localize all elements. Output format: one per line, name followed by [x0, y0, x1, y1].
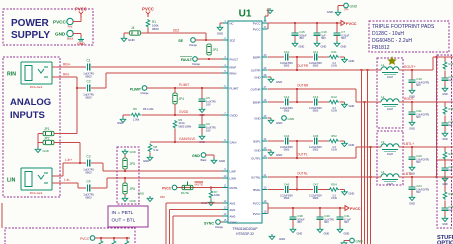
- wire JP6 to GND: [124, 194, 126, 196]
- junction C15: [294, 22, 296, 24]
- U1 left pin RINN: [223, 72, 229, 74]
- capacitor C16 1uF: [314, 29, 321, 39]
- U1 right pin PVCC: [262, 28, 268, 30]
- svg-text:GND: GND: [356, 240, 364, 244]
- svg-text:C46: C46: [284, 182, 290, 186]
- U1 right pin PVCC: [262, 202, 268, 204]
- wire OUTPL jog up: [355, 147, 357, 158]
- svg-text:FAULT: FAULT: [181, 58, 193, 62]
- capacitor C27 snubber option: [442, 164, 449, 174]
- capacitor C11: [313, 53, 318, 60]
- svg-text:GND: GND: [219, 159, 225, 163]
- U1 left pin RINP: [223, 66, 229, 68]
- wire PVCC rail top: [268, 22, 341, 24]
- ground at R11: [342, 57, 348, 63]
- svg-text:GVDD: GVDD: [230, 113, 238, 117]
- resistor R11 snubber: [329, 55, 340, 60]
- ground near AM rows: [147, 196, 153, 202]
- U1 left pin LINN: [223, 177, 229, 179]
- wire R1 to node: [147, 28, 149, 33]
- svg-text:GND: GND: [344, 232, 350, 236]
- ground at R5: [120, 117, 126, 123]
- svg-text:BSNL: BSNL: [253, 188, 261, 192]
- svg-text:35V: 35V: [299, 36, 304, 40]
- inductor L2: [381, 99, 399, 107]
- wire LBTL-: [399, 176, 453, 178]
- ground at R8: [147, 155, 153, 161]
- svg-text:0603: 0603: [313, 110, 319, 113]
- capacitor C3 1uF: [86, 159, 91, 166]
- wire C19 gnd: [411, 86, 413, 88]
- svg-text:0603: 0603: [85, 196, 92, 200]
- svg-text:GND: GND: [442, 183, 448, 186]
- power flag PVCC pullup: [146, 12, 150, 18]
- junction mute R7: [210, 187, 212, 189]
- svg-text:PLIMIT: PLIMIT: [230, 86, 239, 90]
- ground at C41: [337, 227, 343, 233]
- connector J1 PVCC jack: [67, 18, 73, 24]
- wire to C16: [316, 23, 318, 29]
- U1 left pin LINP: [223, 170, 229, 172]
- svg-text:GND: GND: [217, 32, 223, 36]
- wire RIN- from jack: [52, 76, 77, 78]
- U1 left pin GVDD: [223, 114, 229, 116]
- wire C23 gnd: [411, 163, 413, 165]
- svg-text:PVCC: PVCC: [253, 201, 261, 205]
- svg-text:Orange: Orange: [192, 63, 201, 66]
- wire LINP tap vertical: [79, 143, 81, 164]
- svg-text:FB1812: FB1812: [372, 45, 390, 51]
- wire C5 to gnd: [201, 105, 203, 107]
- wire bottom pullups rail: [95, 237, 130, 239]
- wire MUTE row to U1: [177, 187, 228, 189]
- svg-text:R5: R5: [133, 107, 137, 111]
- svg-text:OUTNR: OUTNR: [251, 87, 261, 91]
- ground at C19: [409, 88, 415, 94]
- svg-text:PVCC: PVCC: [75, 7, 87, 12]
- wire R17 top: [444, 147, 446, 151]
- junction C21: [411, 101, 413, 103]
- ground at C7: [334, 41, 340, 47]
- analog inputs section box: [3, 57, 60, 197]
- wire JP5 to LINP: [124, 169, 126, 171]
- ground below JP6: [122, 196, 128, 202]
- resistor R5: [131, 113, 142, 118]
- U1 right pin GND: [262, 76, 268, 78]
- ground at C23: [409, 165, 415, 171]
- capacitor C38: [290, 213, 297, 223]
- svg-text:10uH: 10uH: [387, 76, 393, 79]
- svg-text:R54: R54: [331, 182, 337, 186]
- testpoint TP5 GND: [201, 153, 206, 158]
- ground GND flag power supply: [78, 37, 84, 41]
- svg-text:C10: C10: [284, 50, 290, 54]
- svg-text:PLIMIT: PLIMIT: [130, 88, 142, 92]
- wire pullup R62 stub: [126, 238, 128, 240]
- svg-text:R12: R12: [331, 95, 337, 99]
- op-amp U1 TPA3116 class-D amplifier IC body: [228, 21, 262, 223]
- jumper JP7 top pin: [187, 182, 189, 186]
- svg-text:MUTE: MUTE: [181, 191, 189, 195]
- svg-text:1uF: 1uF: [449, 79, 453, 82]
- svg-text:GND: GND: [349, 59, 355, 63]
- wire pullup R60 stub: [100, 238, 102, 240]
- svg-text:GND: GND: [327, 10, 333, 14]
- wire gnd pin118: [268, 117, 271, 119]
- svg-text:0603: 0603: [85, 75, 92, 79]
- U1 left pin AM0: [223, 215, 229, 217]
- wire AM0 vertical: [172, 216, 174, 244]
- svg-text:Orange: Orange: [215, 226, 224, 229]
- ground pin1: [217, 25, 223, 31]
- wire GND to JP5: [124, 155, 126, 158]
- capacitor C21: [409, 108, 416, 118]
- wire vertical to GND symbol: [80, 34, 82, 38]
- wire AM2 vertical: [165, 203, 167, 244]
- wire R18 top: [444, 187, 446, 191]
- svg-text:SYNC: SYNC: [230, 220, 238, 224]
- junction LINP tap: [79, 162, 81, 164]
- ground at C25: [442, 86, 448, 92]
- connector J2 GND jack: [67, 30, 73, 36]
- svg-text:0603: 0603: [284, 65, 290, 68]
- wire LINN up: [106, 178, 108, 188]
- wire C16 to gnd: [316, 39, 318, 41]
- svg-text:L1: L1: [381, 63, 385, 67]
- wire LINP to U1: [103, 170, 228, 172]
- wire stack4 lead: [444, 177, 446, 187]
- wire LIN+ from jack: [52, 175, 63, 177]
- svg-text:Red: Red: [68, 25, 73, 29]
- wire R18 to C28: [444, 201, 446, 205]
- wire pullup R61 stub: [113, 238, 115, 240]
- svg-text:FAULT: FAULT: [230, 57, 239, 61]
- wire JP2 left: [38, 142, 43, 144]
- wire C40 gnd: [319, 223, 321, 227]
- U1 right pin PVCC: [262, 22, 268, 24]
- svg-text:LBTL-: LBTL-: [404, 172, 413, 176]
- resistor R52 snubber: [329, 139, 340, 144]
- U1 left pin SDZ: [223, 39, 229, 41]
- wire LIN+ up: [62, 163, 64, 176]
- svg-text:GND: GND: [138, 192, 144, 196]
- svg-text:GND: GND: [254, 148, 260, 152]
- svg-text:0603: 0603: [313, 149, 319, 152]
- wire C15 to gnd: [294, 39, 296, 41]
- wire R9 to gain node: [174, 129, 176, 142]
- capacitor C2 1uF: [86, 84, 91, 91]
- wire BSPL row: [268, 140, 341, 142]
- svg-text:C41: C41: [344, 214, 350, 218]
- wire RINN tap vertical: [76, 88, 78, 134]
- svg-text:JP6: JP6: [130, 187, 136, 191]
- junction gain node: [174, 141, 176, 143]
- wire RINN to U1: [106, 72, 228, 74]
- wire RIN- to C2: [77, 87, 86, 89]
- testpoint TP2 SE: [191, 38, 196, 43]
- svg-text:GND: GND: [442, 223, 448, 226]
- capacitor C7 0.22uF: [334, 29, 341, 39]
- wire OUTNR to L2: [356, 101, 381, 103]
- resistor R61 bottom: [112, 240, 116, 244]
- wire OUTPL to L3: [356, 146, 381, 148]
- svg-text:BSNR: BSNR: [253, 100, 261, 104]
- wire BSPL to OUTPL link: [296, 141, 298, 158]
- svg-text:PVCC: PVCC: [253, 21, 261, 25]
- wire BSNR row: [268, 101, 341, 103]
- junction C41: [339, 207, 341, 209]
- svg-text:R6 4.22k: R6 4.22k: [143, 107, 154, 111]
- resistor R7 mute pulldown: [209, 190, 213, 199]
- note box TRIPLE FOOTPRINT PADS: [369, 21, 449, 52]
- svg-text:RIN: RIN: [7, 72, 16, 78]
- U1 left pin AM2: [223, 202, 229, 204]
- svg-text:50V: 50V: [416, 191, 421, 194]
- svg-text:SDZ: SDZ: [173, 29, 179, 33]
- svg-text:GND: GND: [409, 127, 415, 131]
- svg-text:C15: C15: [299, 30, 305, 34]
- svg-text:C6: C6: [206, 122, 210, 126]
- svg-text:PVCC: PVCC: [162, 187, 172, 191]
- resistor R17 snubber option: [443, 151, 447, 160]
- svg-text:C38: C38: [297, 214, 303, 218]
- junction PLIMIT JP4: [174, 87, 176, 89]
- svg-text:10uH: 10uH: [387, 153, 393, 156]
- svg-text:MUTE: MUTE: [230, 186, 238, 190]
- svg-text:C4: C4: [86, 180, 90, 184]
- svg-text:PVCC: PVCC: [253, 212, 261, 216]
- jumper JP4: [173, 93, 177, 104]
- wire pvcc join bottom: [267, 203, 269, 214]
- wire ROUT-: [399, 101, 453, 103]
- junction SDZ/SE: [205, 39, 207, 41]
- resistor R8 gain lower: [148, 144, 152, 153]
- svg-text:0603: 0603: [85, 96, 92, 100]
- junction BSNL link: [296, 189, 298, 191]
- note box IN=PBTL OUT=BTL: [108, 206, 148, 227]
- U1 right pin BSPL: [262, 140, 268, 142]
- svg-text:GND: GND: [409, 202, 415, 206]
- U1 left pin GAIN: [223, 141, 229, 143]
- svg-text:GND: GND: [276, 80, 282, 84]
- wire C24 gnd: [411, 193, 413, 195]
- ground at C26: [442, 131, 448, 137]
- svg-text:0603 1/8W: 0603 1/8W: [179, 124, 192, 128]
- wire OUTPR PBTL vertical: [361, 70, 363, 244]
- svg-text:R18: R18: [449, 192, 453, 196]
- svg-text:ROUT+: ROUT+: [404, 65, 416, 69]
- svg-text:1uF: 1uF: [449, 124, 453, 127]
- svg-text:JP2: JP2: [44, 137, 50, 141]
- svg-text:PVCC: PVCC: [142, 7, 154, 12]
- svg-text:1uF: 1uF: [449, 209, 453, 212]
- wire LINP jog down: [102, 163, 104, 171]
- ground at C21: [409, 120, 415, 126]
- wire to C7: [336, 23, 338, 29]
- ground at C6: [199, 134, 205, 140]
- wire AM0 horizontal: [173, 215, 228, 217]
- capacitor C28 snubber option: [442, 204, 449, 214]
- wire R16 to C26: [444, 116, 446, 120]
- junction OUTPL tap: [370, 146, 372, 148]
- wire node SDZ horizontal: [141, 32, 206, 34]
- resistor R1 body: [146, 19, 150, 28]
- wire RINN up: [105, 73, 107, 88]
- ground at C5: [199, 107, 205, 113]
- svg-text:LINP: LINP: [230, 169, 236, 173]
- svg-text:OUT = BTL: OUT = BTL: [112, 218, 136, 223]
- ground at mute resistor: [208, 200, 214, 206]
- wire output bus vertical: [436, 57, 438, 177]
- wire R54 to gnd: [340, 189, 345, 191]
- wire OUTNR: [268, 88, 356, 90]
- jumper JP3: [207, 44, 211, 55]
- svg-text:R50: R50: [160, 195, 165, 199]
- ground at J4: [121, 36, 127, 42]
- power supply section box: [3, 9, 93, 45]
- wire tp4: [338, 5, 344, 7]
- svg-text:JP4: JP4: [179, 97, 185, 101]
- svg-text:50V: 50V: [324, 220, 329, 224]
- wire to C5: [201, 88, 203, 95]
- svg-text:R17: R17: [449, 152, 453, 156]
- svg-text:5.1k: 5.1k: [154, 148, 160, 152]
- wire GND tp down: [213, 155, 215, 158]
- wire LIN- from jack: [52, 182, 78, 184]
- svg-text:GND: GND: [55, 32, 66, 37]
- svg-text:R11: R11: [331, 50, 337, 54]
- svg-text:Black: Black: [201, 159, 208, 162]
- svg-text:C16: C16: [321, 30, 327, 34]
- svg-text:GND: GND: [442, 138, 448, 141]
- wire OUTPL PBTL vertical: [370, 147, 372, 244]
- svg-text:GND: GND: [276, 121, 282, 125]
- ground at R54: [342, 190, 348, 196]
- svg-text:16V: 16V: [206, 128, 211, 132]
- junction JP3/FAULT: [208, 58, 210, 60]
- capacitor C40: [317, 213, 324, 223]
- wire LBTL+: [399, 146, 453, 148]
- power flag PVCC bottom rail: [345, 206, 349, 211]
- capacitor C41: [337, 213, 344, 223]
- svg-text:TP4: TP4: [344, 9, 349, 12]
- svg-text:GND: GND: [254, 116, 260, 120]
- U1 left pin MUTE: [223, 187, 229, 189]
- wire LIN- down: [77, 183, 79, 188]
- svg-text:GND: GND: [143, 159, 149, 163]
- svg-text:PVCC: PVCC: [53, 20, 66, 25]
- ground at pin GND 77: [268, 77, 274, 83]
- svg-text:GND: GND: [299, 45, 305, 49]
- svg-text:0.1W: 0.1W: [331, 110, 337, 113]
- svg-text:OUTNL: OUTNL: [251, 175, 261, 179]
- wire SE to U1 pin: [195, 39, 228, 41]
- svg-text:GND: GND: [288, 117, 296, 121]
- svg-text:GVDD: GVDD: [179, 110, 189, 114]
- svg-text:0.1W: 0.1W: [331, 197, 337, 200]
- ground at C16: [314, 41, 320, 47]
- junction BSPR link: [296, 56, 298, 58]
- wire R7 to gnd: [210, 199, 212, 200]
- wire C25 gnd: [444, 84, 446, 86]
- svg-text:INPUTS: INPUTS: [10, 110, 45, 121]
- wire C3 right: [91, 162, 103, 164]
- U1 right pin BSNL: [262, 189, 268, 191]
- testpoint TP8 GND: [350, 238, 355, 243]
- callout star: [387, 56, 397, 65]
- svg-text:GND: GND: [254, 75, 260, 79]
- wire R11 to gnd: [340, 56, 345, 58]
- svg-text:L2: L2: [381, 95, 385, 99]
- ground at TP4: [335, 10, 341, 16]
- svg-text:RCA-Jack: RCA-Jack: [30, 85, 43, 89]
- junction BSNR link: [296, 101, 298, 103]
- U1 right pin GND: [262, 117, 268, 119]
- wire to JP4: [174, 88, 176, 93]
- ground at R52: [342, 141, 348, 147]
- wire RIN- down: [76, 77, 78, 88]
- wire C38 gnd: [292, 223, 294, 227]
- U1 left pin FAULT: [223, 58, 229, 60]
- junction OUTNL cross: [370, 176, 372, 178]
- junction BSPL link: [296, 140, 298, 142]
- testpoint TP7 SYNC: [216, 220, 221, 225]
- wire GVDD to U1: [142, 114, 229, 116]
- svg-text:C2: C2: [86, 80, 90, 84]
- capacitor C46: [284, 186, 289, 193]
- svg-text:C24: C24: [416, 184, 422, 188]
- power flag PVCC rail: [341, 21, 345, 26]
- svg-text:NC: NC: [230, 21, 234, 25]
- power flag PVCC: [79, 12, 83, 18]
- svg-text:SUPPLY: SUPPLY: [11, 30, 50, 41]
- U1 right pin OUTNL: [262, 176, 268, 178]
- wire C6 gnd: [201, 131, 203, 134]
- U1 right pin GND: [262, 149, 268, 151]
- U1 right pin OUTPL: [262, 157, 268, 159]
- svg-text:C11: C11: [313, 50, 319, 54]
- wire C2 right: [91, 87, 106, 89]
- svg-text:LBTL+: LBTL+: [404, 142, 414, 146]
- wire GND jack: [73, 33, 81, 35]
- svg-text:C44: C44: [284, 134, 290, 138]
- svg-text:OUTPR: OUTPR: [251, 68, 261, 72]
- svg-text:0603: 0603: [313, 65, 319, 68]
- svg-text:35V: 35V: [297, 220, 302, 224]
- svg-text:U1: U1: [239, 9, 252, 20]
- svg-text:GAIN: GAIN: [230, 140, 237, 144]
- capacitor C5: [199, 95, 206, 105]
- svg-text:BSPL: BSPL: [253, 139, 261, 143]
- ground at C28: [442, 216, 448, 222]
- wire LINN to U1: [107, 177, 228, 179]
- junction pullup R61: [113, 237, 115, 239]
- wire ROUT+ exit: [433, 56, 453, 58]
- svg-text:L3: L3: [381, 140, 385, 144]
- ground above JP5: [122, 149, 128, 155]
- svg-text:C45: C45: [313, 134, 319, 138]
- capacitor C13: [313, 98, 318, 105]
- bottom option section box: [5, 228, 135, 244]
- svg-text:RINN: RINN: [230, 71, 237, 75]
- testpoint gnd 118: [282, 116, 287, 121]
- wire OUTNR jog: [355, 89, 357, 102]
- wire BSNL row: [268, 189, 341, 191]
- ground at TP8: [341, 241, 347, 244]
- junction GVDD JP4: [174, 114, 176, 116]
- svg-text:OUTPL: OUTPL: [297, 153, 308, 157]
- svg-text:GAIN/SLV0: GAIN/SLV0: [179, 137, 195, 141]
